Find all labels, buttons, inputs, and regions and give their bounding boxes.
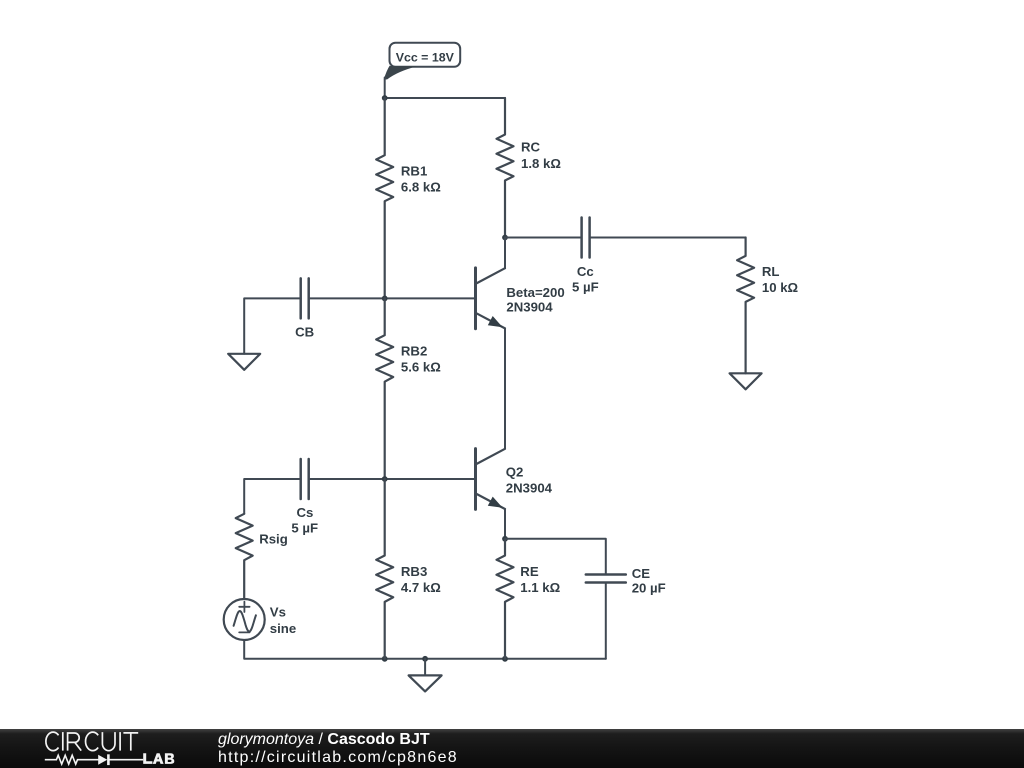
svg-text:5 µF: 5 µF <box>291 521 318 536</box>
svg-text:5 µF: 5 µF <box>572 280 599 295</box>
svg-text:RE: RE <box>520 564 539 579</box>
ground below RL <box>730 373 762 389</box>
svg-text:CB: CB <box>295 325 314 340</box>
transistor Q1 <box>476 268 565 329</box>
resistor RC <box>497 98 562 238</box>
capacitor Cs <box>291 459 318 536</box>
wire CB left to ground <box>244 298 301 353</box>
resistor RB3 <box>376 479 441 659</box>
node Q2 emitter junction <box>502 536 508 542</box>
wire Q1 emitter to Q2 collector <box>504 328 506 448</box>
node Vcc junction <box>382 95 388 101</box>
resistor RB2 <box>376 298 441 479</box>
wire Q2 emitter <box>504 509 506 539</box>
url line <box>218 749 458 767</box>
voltage label Vcc=18V <box>384 43 460 80</box>
node bottom RE junction <box>502 656 508 662</box>
svg-text:10 kΩ: 10 kΩ <box>762 280 799 295</box>
wire Vs to bottom rail <box>244 640 385 659</box>
svg-text:2N3904: 2N3904 <box>506 481 553 496</box>
wire top rail <box>385 97 505 99</box>
svg-text:Rsig: Rsig <box>259 532 288 547</box>
node collector junction <box>502 235 508 241</box>
wire CB to Q1 base <box>309 297 476 299</box>
svg-text:Cs: Cs <box>297 505 314 520</box>
wire Cc to RL <box>590 237 746 239</box>
svg-text:CE: CE <box>632 566 651 581</box>
CircuitLab logo <box>0 0 210 768</box>
node bottom RB3 junction <box>382 656 388 662</box>
footer bar <box>0 729 1024 768</box>
svg-text:20 µF: 20 µF <box>632 580 666 595</box>
wire bottom rail <box>385 658 606 660</box>
node Q2 base junction <box>382 476 388 482</box>
wire emitter to CE <box>505 539 606 575</box>
svg-text:Vcc = 18V: Vcc = 18V <box>396 50 455 64</box>
svg-text:RB1: RB1 <box>401 164 427 179</box>
svg-text:4.7 kΩ: 4.7 kΩ <box>401 580 441 595</box>
wire CE to bottom rail <box>605 583 607 659</box>
wire source column <box>244 479 301 514</box>
wire Vcc stub <box>384 78 386 99</box>
svg-text:Vs: Vs <box>270 605 286 620</box>
svg-text:2N3904: 2N3904 <box>506 300 553 315</box>
resistor RL <box>737 238 798 374</box>
ground bottom center <box>409 659 442 692</box>
capacitor CB <box>295 278 314 339</box>
capacitor CE <box>586 566 666 596</box>
node bottom ground junction <box>422 656 428 662</box>
node Q1 base junction <box>382 296 388 302</box>
ground below CB <box>228 354 260 370</box>
svg-text:1.1 kΩ: 1.1 kΩ <box>520 580 560 595</box>
wire Cs to Q2 base <box>309 478 476 480</box>
resistor RB1 <box>376 98 441 298</box>
credit line <box>218 731 430 749</box>
transistor Q2 <box>476 449 553 510</box>
resistor RE <box>497 539 561 659</box>
svg-text:RC: RC <box>521 140 541 155</box>
svg-text:sine: sine <box>270 621 296 636</box>
svg-text:Cc: Cc <box>577 264 594 279</box>
svg-text:5.6 kΩ: 5.6 kΩ <box>401 360 441 375</box>
svg-text:RB3: RB3 <box>401 564 427 579</box>
svg-text:RB2: RB2 <box>401 344 427 359</box>
wire collector to Cc <box>505 237 582 239</box>
capacitor Cc <box>572 218 599 295</box>
resistor Rsig <box>236 514 288 599</box>
svg-text:6.8 kΩ: 6.8 kΩ <box>401 180 441 195</box>
svg-text:Beta=200: Beta=200 <box>506 285 564 300</box>
svg-text:1.8 kΩ: 1.8 kΩ <box>521 156 561 171</box>
voltage source Vs <box>224 599 296 640</box>
wire Q1 collector <box>504 238 506 269</box>
svg-text:Q2: Q2 <box>506 465 524 480</box>
svg-text:RL: RL <box>762 264 780 279</box>
